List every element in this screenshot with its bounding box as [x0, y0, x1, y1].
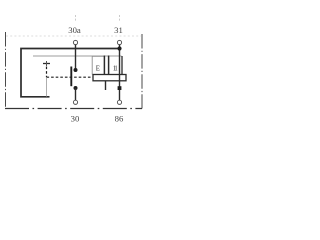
- svg-text:30: 30: [71, 113, 80, 123]
- lamp box H right edge: [121, 56, 123, 75]
- actuator linkage vertical (dashed): [46, 67, 48, 78]
- internal bus (thin): [33, 55, 122, 57]
- lamp box E: [92, 56, 104, 74]
- svg-text:30a: 30a: [68, 25, 81, 35]
- push-button actuator cap: [43, 63, 50, 65]
- svg-text:E: E: [96, 66, 100, 73]
- wire terminal 30a to contact: [75, 45, 77, 70]
- svg-text:31: 31: [114, 25, 123, 35]
- lamp box E right edge: [103, 56, 105, 75]
- svg-text:86: 86: [115, 113, 124, 123]
- junction node at 31 wire and body top: [117, 46, 121, 50]
- terminal 86: [117, 100, 121, 104]
- actuator linkage horizontal (dashed): [47, 76, 94, 78]
- junction node on 86 wire: [118, 86, 122, 90]
- lamp box H left edge: [108, 56, 110, 75]
- boundary box bottom edge (dash-dot): [5, 108, 142, 110]
- terminal 31: [117, 40, 121, 44]
- boundary box top edge (faint dotted): [6, 35, 141, 37]
- movable contact bridge bar: [70, 67, 72, 87]
- open contact stub: [105, 81, 107, 90]
- push-button actuator stem: [46, 61, 48, 66]
- terminal 30: [73, 100, 77, 104]
- boundary box left edge (dash-dot): [5, 32, 7, 109]
- switch body outline (open rectangle): [21, 49, 120, 97]
- terminal 30a: [73, 40, 77, 44]
- wire stub above terminal 30a: [75, 15, 77, 22]
- fixed contact upper: [74, 68, 78, 72]
- svg-text:11: 11: [113, 66, 118, 73]
- fixed contact lower: [74, 86, 78, 90]
- wire contact to terminal 30: [75, 88, 77, 100]
- contact plate (flat rectangle): [93, 75, 126, 81]
- wire terminal 31 down to terminal 86: [119, 45, 121, 100]
- wire stub above terminal 31: [119, 15, 121, 22]
- actuator guide (thin): [46, 78, 48, 97]
- boundary box right edge (dash-dot): [141, 34, 143, 109]
